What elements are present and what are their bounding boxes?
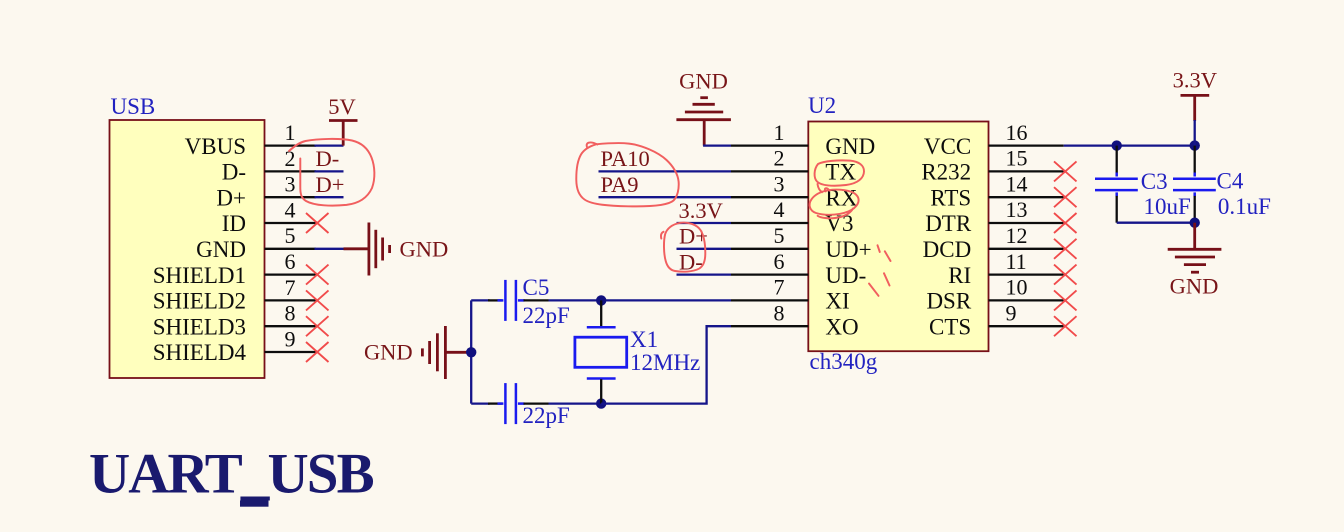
svg-text:D+: D+ — [216, 185, 246, 210]
U2 pin 8 stub — [731, 300, 808, 326]
crystal X1 12MHz — [575, 300, 700, 403]
svg-text:SHIELD3: SHIELD3 — [153, 314, 246, 339]
no-connect X pin 7 — [306, 290, 329, 310]
svg-text:22pF: 22pF — [523, 303, 570, 328]
no-connect X pin 14 — [1054, 187, 1077, 207]
svg-text:UD-: UD- — [825, 263, 866, 288]
svg-text:C5: C5 — [523, 275, 550, 300]
svg-text:9: 9 — [285, 326, 296, 351]
svg-text:7: 7 — [774, 275, 785, 300]
annotation tick 2 — [885, 251, 891, 261]
capacitor C4 — [1173, 146, 1271, 223]
U2 pin 6 stub — [731, 249, 808, 275]
no-connect X pin 15 — [1054, 161, 1077, 181]
svg-text:4: 4 — [285, 197, 296, 222]
wire D- to U2 pin 6 — [677, 273, 732, 275]
svg-text:10: 10 — [1006, 275, 1028, 300]
U2 pin 13 stub — [989, 197, 1064, 223]
svg-text:4: 4 — [774, 197, 785, 222]
wire D+ to U2 pin 5 — [677, 248, 732, 250]
wire XO to U2 pin 8 — [601, 326, 731, 403]
no-connect X pin 9 — [306, 342, 329, 362]
node junction at C4 top — [1190, 140, 1200, 150]
capacitor C5 (22pF top) — [471, 275, 601, 328]
svg-text:ch340g: ch340g — [810, 349, 878, 374]
ground GND below C4 — [1168, 223, 1222, 299]
U2 pin 7 stub — [731, 275, 808, 301]
wire PA10 to U2 pin 2 — [599, 170, 732, 172]
U2 pin 15 stub — [989, 146, 1064, 172]
U2 pin 2 stub — [731, 146, 808, 172]
svg-text:6: 6 — [285, 249, 296, 274]
annotation circle around D+/D- — [661, 223, 705, 272]
svg-text:C4: C4 — [1217, 169, 1244, 194]
svg-text:5: 5 — [285, 223, 296, 248]
U2 pin 3 stub — [731, 171, 808, 197]
wire 3.3V to U2 pin 4 — [677, 222, 732, 224]
svg-text:8: 8 — [774, 300, 785, 325]
USB pin 9 stub — [265, 326, 316, 352]
svg-text:D-: D- — [222, 160, 246, 185]
U2 pin 1 stub — [731, 120, 808, 146]
svg-text:16: 16 — [1006, 120, 1028, 145]
wire D- net — [315, 170, 344, 172]
no-connect X pin 13 — [1054, 213, 1077, 233]
svg-text:22pF: 22pF — [523, 403, 570, 428]
svg-text:DSR: DSR — [926, 289, 971, 314]
USB pin 5 stub — [265, 223, 316, 249]
svg-text:1: 1 — [774, 120, 785, 145]
ground GND left of rail — [364, 326, 471, 379]
USB pin 2 stub — [265, 146, 316, 172]
svg-text:D-: D- — [316, 146, 340, 171]
svg-text:2: 2 — [774, 146, 785, 171]
wire D+ net — [315, 196, 344, 198]
svg-text:USB: USB — [111, 94, 156, 119]
annotation circle around D-/D+ — [289, 139, 374, 206]
svg-text:7: 7 — [285, 275, 296, 300]
U2 pin 5 stub — [731, 223, 808, 249]
svg-text:GND: GND — [400, 237, 449, 262]
svg-text:14: 14 — [1006, 171, 1028, 196]
svg-text:RTS: RTS — [930, 185, 971, 210]
U2 pin 11 stub — [989, 249, 1064, 275]
svg-text:15: 15 — [1006, 146, 1028, 171]
svg-text:GND: GND — [825, 134, 875, 159]
svg-text:SHIELD2: SHIELD2 — [153, 289, 246, 314]
no-connect X pin 9 — [1054, 316, 1077, 336]
node junction at C3 top — [1112, 140, 1122, 150]
svg-text:12MHz: 12MHz — [630, 350, 700, 375]
ground GND at USB pin 5 — [344, 223, 449, 276]
annotation tick 3 — [884, 273, 890, 285]
no-connect X pin 4 — [306, 213, 329, 233]
no-connect X pin 12 — [1054, 239, 1077, 259]
node junction crystal top — [596, 295, 606, 305]
svg-text:RI: RI — [948, 263, 971, 288]
svg-text:DCD: DCD — [923, 237, 972, 262]
power 5V — [328, 94, 357, 146]
svg-text:X1: X1 — [630, 327, 658, 352]
node junction at C4 bottom — [1190, 218, 1200, 228]
svg-text:12: 12 — [1006, 223, 1028, 248]
USB pin 4 stub — [265, 197, 316, 223]
svg-text:DTR: DTR — [925, 211, 972, 236]
U2 pin 10 stub — [989, 275, 1064, 301]
node junction rail/GND — [466, 347, 476, 357]
svg-text:VCC: VCC — [924, 134, 971, 159]
svg-text:3: 3 — [774, 171, 785, 196]
svg-text:5: 5 — [774, 223, 785, 248]
U2 pin 14 stub — [989, 171, 1064, 197]
annotation circle around RX — [810, 190, 859, 219]
wire C3/C4 bottom rail — [1117, 222, 1195, 224]
power 3.3V — [1173, 68, 1217, 146]
svg-text:GND: GND — [196, 237, 246, 262]
svg-text:SHIELD4: SHIELD4 — [153, 340, 247, 365]
USB pin 1 stub — [265, 120, 316, 146]
svg-text:U2: U2 — [808, 93, 836, 118]
wire GND to U2 pin 1 — [703, 144, 731, 146]
svg-text:GND: GND — [1170, 273, 1219, 298]
IC U2 ch340g — [808, 93, 989, 374]
U2 pin 4 stub — [731, 197, 808, 223]
svg-text:XO: XO — [825, 314, 858, 339]
svg-text:9: 9 — [1006, 300, 1017, 325]
svg-text:UD+: UD+ — [825, 237, 871, 262]
svg-text:PA10: PA10 — [601, 146, 650, 171]
svg-text:5V: 5V — [328, 94, 356, 119]
svg-text:0.1uF: 0.1uF — [1218, 194, 1271, 219]
no-connect X pin 11 — [1054, 265, 1077, 285]
wire VCC net to 3.3V rail — [1064, 144, 1195, 146]
annotation circle around TX — [815, 160, 864, 192]
svg-text:3.3V: 3.3V — [1173, 68, 1217, 93]
no-connect X pin 10 — [1054, 290, 1077, 310]
USB pin 3 stub — [265, 172, 316, 198]
svg-text:UART_USB: UART_USB — [89, 443, 374, 506]
svg-text:R232: R232 — [921, 160, 971, 185]
wire VBUS to 5V — [315, 144, 344, 146]
svg-text:1: 1 — [285, 120, 296, 145]
svg-text:13: 13 — [1006, 197, 1028, 222]
svg-text:TX: TX — [825, 160, 856, 185]
wire GND net — [315, 248, 344, 250]
node junction crystal bottom — [596, 398, 606, 408]
svg-text:GND: GND — [679, 69, 728, 94]
svg-text:CTS: CTS — [929, 314, 971, 339]
USB pin 8 stub — [265, 301, 316, 327]
svg-text:11: 11 — [1006, 249, 1027, 274]
svg-text:XI: XI — [825, 289, 849, 314]
wire crystal left rail — [470, 300, 472, 403]
USB pin 7 stub — [265, 275, 316, 301]
no-connect X pin 6 — [306, 265, 329, 285]
U2 pin 16 stub — [989, 120, 1064, 146]
U2 pin 9 stub — [989, 300, 1064, 326]
capacitor C3 — [1095, 146, 1191, 223]
svg-text:3.3V: 3.3V — [679, 198, 723, 223]
svg-text:GND: GND — [364, 340, 413, 365]
svg-text:ID: ID — [222, 211, 246, 236]
svg-text:SHIELD1: SHIELD1 — [153, 263, 246, 288]
annotation tick 4 — [869, 284, 879, 296]
svg-text:3: 3 — [285, 172, 296, 197]
no-connect X pin 8 — [306, 316, 329, 336]
wire XI to U2 pin 7 — [601, 299, 731, 301]
capacitor 22pF bottom — [471, 383, 601, 428]
ground GND above U2 — [676, 69, 731, 146]
svg-text:C3: C3 — [1141, 169, 1168, 194]
svg-text:PA9: PA9 — [601, 172, 639, 197]
svg-text:VBUS: VBUS — [185, 134, 246, 159]
U2 pin 12 stub — [989, 223, 1064, 249]
connector J? USB — [110, 94, 265, 378]
svg-text:10uF: 10uF — [1144, 194, 1191, 219]
annotation circle around PA10/PA9 — [576, 142, 678, 206]
svg-text:D+: D+ — [316, 172, 345, 197]
wire PA9 to U2 pin 3 — [599, 196, 732, 198]
USB pin 6 stub — [265, 249, 316, 275]
svg-text:6: 6 — [774, 249, 785, 274]
annotation tick 1 — [878, 245, 880, 252]
svg-text:8: 8 — [285, 301, 296, 326]
